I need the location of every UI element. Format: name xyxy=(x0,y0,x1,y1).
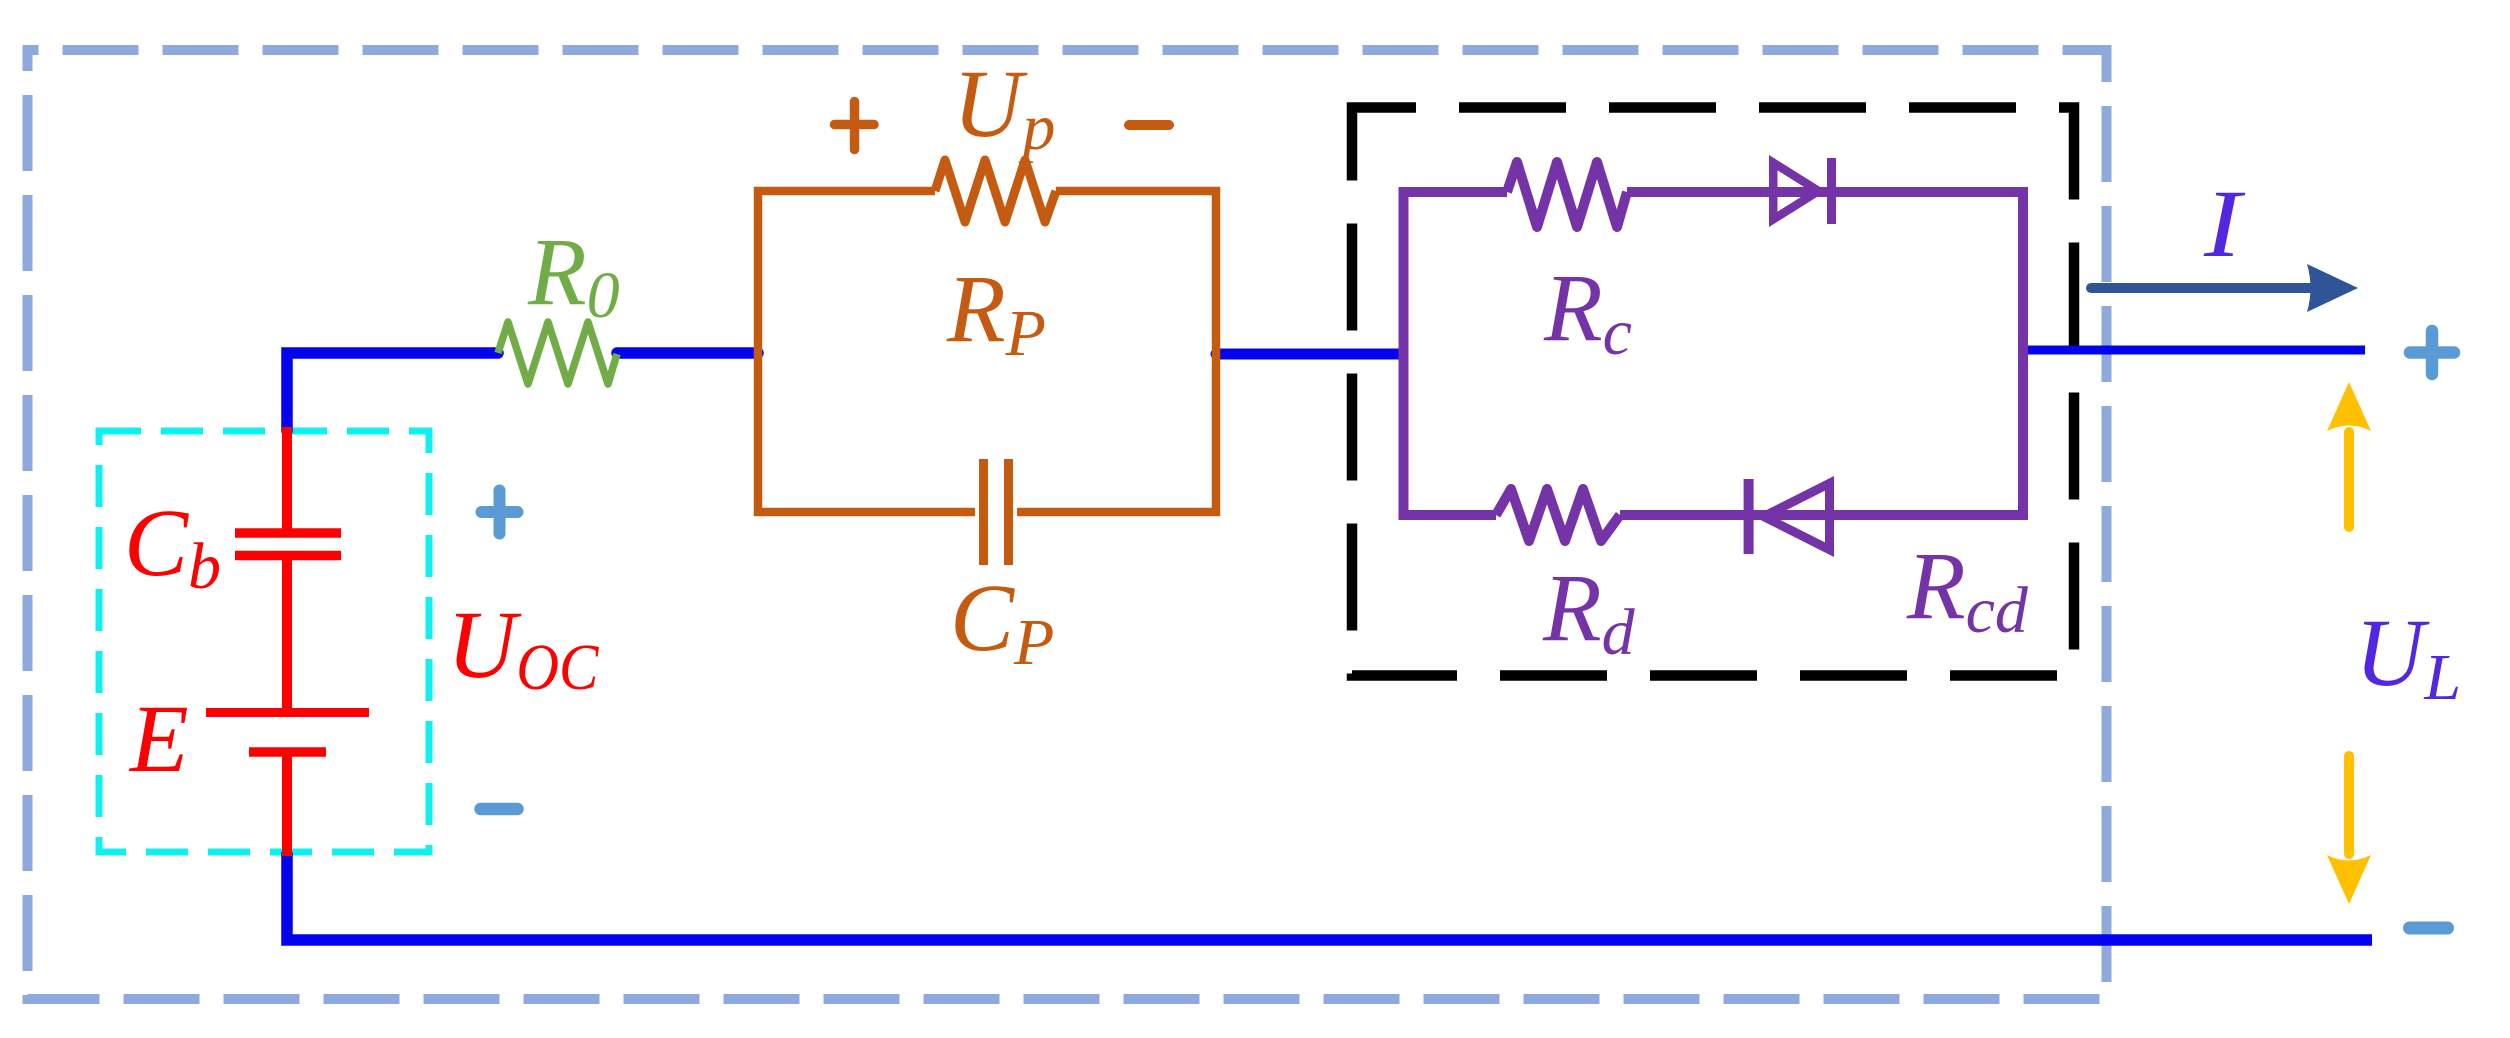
svg-text:I: I xyxy=(2203,170,2246,277)
svg-text:CP: CP xyxy=(950,564,1054,679)
svg-text:Rd: Rd xyxy=(1542,554,1636,669)
cyan dashed OCV source box xyxy=(99,431,429,852)
resistor Rp (top of parallel box) xyxy=(935,160,1056,222)
polarity + of Uoc xyxy=(482,491,518,534)
resistor Rc xyxy=(1507,162,1627,227)
diode D2 (discharge, pointing left) xyxy=(1744,479,1754,554)
battery E short plate xyxy=(249,747,326,757)
capacitor Cp left plate xyxy=(979,459,988,565)
Rp-Cp parallel box outline xyxy=(758,191,975,512)
black dashed Rcd sub-circuit box xyxy=(1352,108,2074,676)
svg-text:UOC: UOC xyxy=(447,591,599,704)
node: red top lead of Uoc source xyxy=(282,427,292,530)
wire: bottom return rail xyxy=(287,852,2372,940)
Rcd network: left vertical bus xyxy=(1399,187,1409,520)
diode D1 (charge, pointing right) xyxy=(1769,155,1827,227)
terminal - (load) xyxy=(2410,922,2448,935)
wire: Rp box to Rcd box xyxy=(1216,349,1403,360)
capacitor Cb top plate xyxy=(235,528,341,538)
capacitor Cp right plate xyxy=(1004,459,1013,565)
polarity - of Up xyxy=(1129,120,1169,130)
battery E long plate xyxy=(206,708,369,717)
svg-text:UL: UL xyxy=(2355,599,2461,714)
UL arrow up xyxy=(2344,432,2354,527)
svg-text:Rc: Rc xyxy=(1543,254,1632,369)
wire: R0 to Rp box xyxy=(617,347,758,359)
polarity - of Uoc xyxy=(481,803,518,816)
svg-text:R0: R0 xyxy=(527,218,620,332)
wire: Rcd box to + terminal xyxy=(2023,346,2365,355)
svg-text:Rcd: Rcd xyxy=(1906,532,2029,647)
capacitor Cb bottom plate xyxy=(235,551,341,561)
polarity + of Up xyxy=(835,102,875,150)
outer dashed battery-model box xyxy=(28,50,2107,999)
wire: red bottom lead xyxy=(282,756,292,856)
svg-text:Cb: Cb xyxy=(124,489,221,603)
resistor Rd xyxy=(1496,489,1620,541)
svg-text:E: E xyxy=(128,685,189,792)
current arrow I xyxy=(2091,283,2310,293)
wire: bottom discharge branch xyxy=(1403,510,2023,520)
terminal + (load) xyxy=(2410,331,2454,374)
Rcd network: right vertical bus xyxy=(2018,187,2028,520)
svg-text:RP: RP xyxy=(946,255,1046,370)
wire: top-left riser and run to R0 xyxy=(287,353,498,431)
UL arrow down xyxy=(2344,756,2354,854)
resistor R0 xyxy=(498,322,617,384)
svg-text:Up: Up xyxy=(953,50,1055,164)
wire: red middle lead xyxy=(282,560,292,709)
wire: top charge branch xyxy=(1403,187,2023,197)
